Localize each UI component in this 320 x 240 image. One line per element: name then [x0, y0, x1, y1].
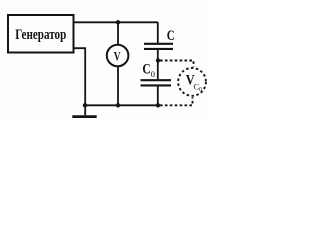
wire: capacitor branch drop from top rail [157, 22, 159, 43]
node: junction dot bottom rail / capacitor branch [156, 103, 160, 107]
capacitor C [144, 44, 173, 49]
generator box G1 [8, 15, 74, 53]
svg-text:0: 0 [199, 87, 202, 93]
wire: top rail from generator to capacitor branch [74, 21, 158, 23]
node: junction dot bottom rail / generator-ground [83, 103, 87, 107]
ground [84, 105, 86, 115]
node: junction dot bottom rail / voltmeter [116, 103, 120, 107]
node: junction dot to dashed voltmeter top [156, 58, 160, 62]
svg-text:V: V [114, 50, 121, 64]
wire: generator bottom output to ground rail [74, 48, 85, 105]
wire: between capacitor C and C0 [157, 50, 159, 80]
wire: dashed lead top to external voltmeter [160, 61, 194, 67]
wire: C0 bottom lead to bottom rail [157, 86, 159, 105]
voltmeter (dashed) VCo [178, 68, 206, 96]
capacitor C0 [141, 80, 172, 85]
wire: voltmeter bottom lead [117, 66, 119, 105]
svg-text:C: C [142, 62, 150, 78]
svg-text:C: C [167, 28, 175, 44]
voltmeter U1 [107, 45, 129, 67]
wire: bottom rail [85, 104, 158, 106]
svg-text:0: 0 [151, 69, 155, 79]
svg-text:Генератор: Генератор [15, 27, 66, 43]
wire: voltmeter top lead [117, 22, 119, 44]
wire: dashed lead bottom to external voltmeter [160, 97, 193, 105]
node: junction dot top rail / voltmeter [116, 20, 120, 24]
